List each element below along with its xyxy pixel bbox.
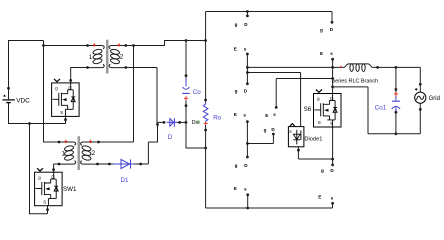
mosfet Q1 internal symbol — [52, 83, 73, 117]
wire VDC negative rail — [9, 103, 66, 124]
mosfet SW1 block outline — [35, 172, 63, 206]
svg-text:S6: S6 — [304, 106, 312, 113]
mosfet Q1 block outline — [52, 83, 80, 117]
transformer T1 polarity mark secondary — [118, 43, 120, 46]
diode D — [167, 118, 178, 127]
switch S7 port labels — [318, 168, 334, 200]
series RLC branch inductor — [341, 64, 373, 72]
switch S3 port labels — [234, 163, 248, 191]
svg-text:g: g — [321, 168, 324, 173]
svg-text:Ro: Ro — [213, 114, 221, 121]
mosfet S6 antiparallel diode — [333, 108, 337, 113]
junction and terminal dots — [7, 10, 422, 211]
mosfet S6 internal symbol — [314, 94, 335, 128]
svg-text:Co1: Co1 — [375, 104, 387, 111]
transformer T1 secondary winding — [109, 46, 126, 68]
transformer T2 primary winding — [59, 142, 76, 164]
svg-text:2: 2 — [120, 54, 124, 61]
diode block Diode1 — [288, 124, 304, 147]
wire node A to T1 primary top — [44, 41, 88, 46]
svg-text:s: s — [244, 186, 247, 191]
colored speck on Dio label — [198, 121, 200, 123]
switch S2 port labels — [234, 88, 248, 117]
svg-text:S: S — [43, 199, 46, 204]
mosfet Q1 body arrow — [62, 98, 66, 101]
svg-text:s: s — [244, 47, 247, 52]
svg-text:s: s — [273, 112, 276, 117]
transformer T2 core — [78, 136, 81, 170]
svg-text:Diode1: Diode1 — [304, 137, 322, 143]
svg-text:s: s — [330, 51, 333, 56]
transformer T1 primary winding — [88, 46, 105, 68]
svg-text:g: g — [235, 22, 238, 27]
svg-text:s: s — [331, 195, 334, 200]
wire T1 secondary bottom down — [126, 68, 157, 125]
wire Co column top — [185, 41, 187, 78]
svg-text:E: E — [265, 113, 268, 118]
wire Q1 source stub — [65, 116, 67, 123]
svg-text:E: E — [234, 186, 237, 191]
svg-text:Co: Co — [193, 89, 201, 96]
svg-text:E: E — [234, 112, 237, 117]
wire top rail — [206, 12, 332, 23]
mosfet SW1 gate input chevron g — [37, 168, 43, 171]
svg-text:Series RLC Branch: Series RLC Branch — [332, 78, 379, 84]
wire S3 bottom stub — [247, 195, 249, 208]
switch S1 port labels — [234, 22, 248, 52]
mosfet SW1 body arrow — [45, 187, 49, 190]
svg-text:E: E — [318, 195, 321, 200]
svg-text:D: D — [168, 134, 173, 141]
transformer T2 secondary winding — [81, 142, 98, 164]
ac source Grid — [415, 88, 426, 103]
wire AC bus to grid corner — [247, 67, 420, 92]
wire Q1 drain to T1 primary bottom — [71, 68, 88, 83]
wire S4 bottom to left column — [247, 134, 273, 144]
wire S4 node to S6 drain column — [276, 78, 332, 80]
mosfet Q1 antiparallel diode — [71, 97, 75, 102]
wire T2 secondary bottom to D1 anode — [98, 163, 114, 165]
wire SW1 source return loop — [30, 124, 48, 214]
capacitor Co1 — [392, 92, 400, 112]
mosfet S6 body arrow — [324, 109, 328, 112]
switch S4 port labels — [264, 112, 277, 132]
svg-text:E: E — [234, 46, 237, 51]
svg-text:D1: D1 — [121, 177, 129, 184]
svg-text:s: s — [243, 112, 246, 117]
svg-text:g: g — [320, 27, 323, 32]
wire Co column bottom — [186, 100, 206, 148]
diode D1 — [113, 159, 134, 168]
mosfet SW1 internal symbol — [35, 172, 56, 206]
wire Ro column bottom — [205, 125, 207, 208]
transformer T1 core — [106, 40, 109, 74]
svg-text:1: 1 — [62, 151, 66, 158]
transformer T1 polarity mark primary — [93, 43, 95, 46]
wire Diode1 bottom to S7 top — [298, 147, 332, 159]
mosfet SW1 antiparallel diode — [54, 186, 58, 191]
wire link T1 secondary top to T2 secondary top — [99, 46, 134, 143]
wire T1 secondary top to output node — [126, 41, 206, 46]
svg-text:g: g — [235, 89, 238, 94]
wire S1 top stub — [246, 12, 248, 17]
wire S6 node to grid return — [333, 87, 421, 134]
wire staircase to D1 cathode — [141, 125, 158, 165]
wire left bus down to T2 primary top — [44, 46, 60, 143]
mosfet Q1 gate input chevron g — [54, 79, 60, 82]
wire S6 source down — [332, 127, 334, 165]
wire Ro column top — [205, 12, 207, 103]
dc source VDC — [2, 88, 14, 102]
wire D1 cathode lead — [134, 163, 141, 165]
capacitor Co — [182, 78, 190, 101]
wire bridge left lower bus — [246, 122, 248, 158]
mosfet S6 gate input chevron g — [316, 90, 322, 93]
svg-text:E: E — [289, 129, 292, 134]
resistor Ro — [203, 103, 208, 122]
transformer T2 polarity mark secondary — [90, 140, 92, 143]
svg-text:VDC: VDC — [16, 98, 30, 105]
wire grid source bottom — [419, 103, 421, 134]
transformer T2 polarity mark primary — [65, 140, 67, 143]
svg-text:g: g — [235, 163, 238, 168]
svg-text:SW1: SW1 — [63, 186, 77, 193]
wire S1-S2 midpoint bus — [246, 54, 248, 84]
switch S5 port labels — [320, 27, 334, 56]
wire lower mid bus to Diode1 top — [247, 73, 300, 127]
svg-text:2: 2 — [92, 150, 96, 157]
svg-text:1: 1 — [89, 54, 93, 61]
wire Cc1 column — [395, 67, 397, 133]
svg-text:S: S — [60, 110, 63, 115]
mosfet S6 block outline — [314, 94, 342, 128]
wire D cathode to Co column — [177, 121, 186, 123]
wire VDC positive to top-left corner — [9, 41, 44, 89]
wire T2 primary bottom to SW1 drain — [54, 164, 59, 172]
wire S4 top stub — [275, 79, 277, 108]
wire S5 source to S6 drain — [332, 59, 334, 93]
wire diode D anode tap — [157, 121, 164, 123]
svg-text:g: g — [264, 127, 267, 132]
svg-text:E: E — [318, 120, 321, 125]
svg-text:E: E — [320, 51, 323, 56]
svg-text:Grid: Grid — [429, 96, 440, 102]
wire bottom rail — [206, 203, 333, 208]
